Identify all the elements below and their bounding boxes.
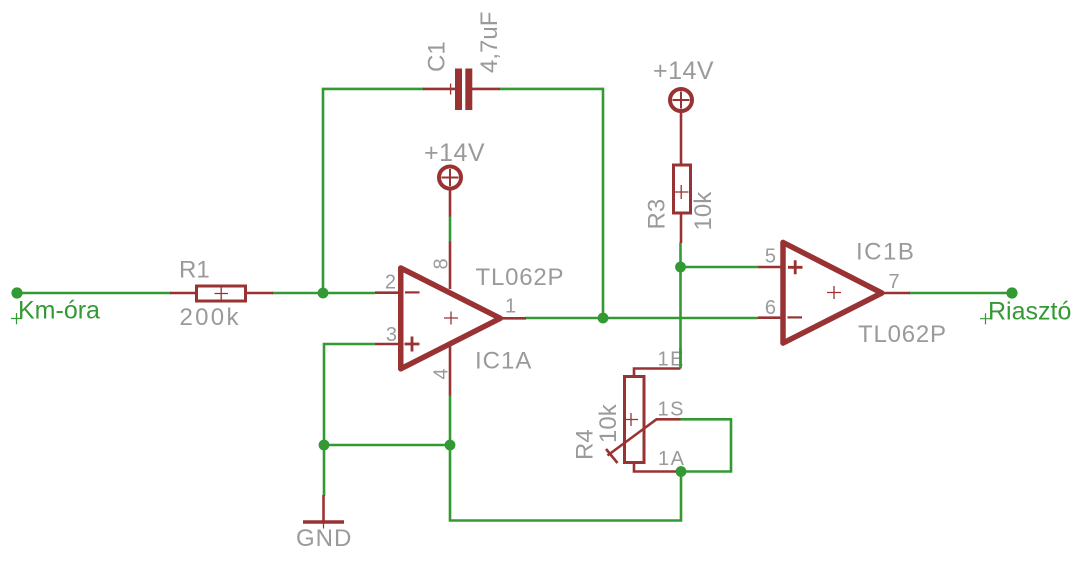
node Km-ora origin cross bbox=[11, 313, 22, 324]
wire net to GND bbox=[323, 445, 326, 496]
wire net R3 to IC1B pin5 bbox=[681, 266, 759, 269]
junction at GND branch bbox=[319, 440, 330, 451]
wire net IC1B output to RIASZTO terminal bbox=[909, 292, 1012, 295]
svg-text:R3: R3 bbox=[644, 199, 671, 230]
wire net GND row horizontal bbox=[324, 444, 450, 447]
junction at R4 pad 1A bbox=[676, 466, 687, 477]
svg-text:1: 1 bbox=[505, 296, 516, 318]
terminal node Km-ora bbox=[11, 287, 22, 298]
resistor R3 bbox=[674, 165, 691, 243]
svg-text:2: 2 bbox=[385, 272, 396, 294]
junction at IC1A pin4 / bottom run bbox=[445, 440, 456, 451]
resistor R1 bbox=[170, 286, 273, 301]
wire net R4 wiper 1S loop to 1A bbox=[681, 419, 732, 471]
wire net +14V supply to IC1A pin8 bbox=[449, 216, 452, 242]
svg-text:TL062P: TL062P bbox=[476, 264, 565, 291]
svg-text:+14V: +14V bbox=[424, 139, 485, 167]
svg-text:5: 5 bbox=[765, 246, 776, 268]
junction at IC1A output bbox=[598, 313, 609, 324]
wire net down to R4 pad 1E bbox=[679, 267, 682, 369]
op-amp IC1A bbox=[375, 242, 526, 396]
svg-text:10k: 10k bbox=[595, 403, 622, 443]
svg-text:8: 8 bbox=[431, 258, 453, 269]
wire net IC1A output to IC1B pin6 bbox=[525, 317, 758, 320]
svg-text:6: 6 bbox=[765, 297, 776, 319]
svg-text:200k: 200k bbox=[180, 304, 241, 331]
terminal node Riaszto bbox=[1006, 287, 1017, 298]
svg-text:10k: 10k bbox=[690, 191, 717, 231]
svg-text:1S: 1S bbox=[658, 399, 685, 421]
svg-text:1A: 1A bbox=[658, 448, 685, 470]
svg-text:IC1A: IC1A bbox=[475, 348, 532, 375]
svg-text:7: 7 bbox=[889, 271, 900, 293]
svg-text:4,7uF: 4,7uF bbox=[476, 12, 503, 73]
ground symbol GND bbox=[303, 495, 344, 529]
svg-text:3: 3 bbox=[386, 324, 397, 346]
svg-text:IC1B: IC1B bbox=[856, 239, 915, 266]
wire net C1 right to IC1A output (down right side) bbox=[499, 89, 603, 318]
svg-text:C1: C1 bbox=[424, 41, 451, 72]
svg-text:GND: GND bbox=[296, 525, 352, 552]
svg-text:Km-óra: Km-óra bbox=[18, 297, 100, 325]
capacitor C1 bbox=[423, 69, 500, 111]
wire net C1 left branch (up from R1 node, across to C1) bbox=[323, 89, 424, 293]
svg-text:4: 4 bbox=[431, 368, 453, 379]
potentiometer R4 bbox=[606, 369, 681, 472]
wire net R3 bottom bbox=[679, 243, 682, 269]
node Riaszto origin cross bbox=[980, 313, 991, 324]
supply symbol +14V (above IC1A) bbox=[439, 167, 461, 217]
svg-text:Riasztó: Riasztó bbox=[988, 298, 1071, 326]
wire net KM-ORA from terminal to R1 bbox=[17, 292, 171, 295]
svg-text:TL062P: TL062P bbox=[858, 321, 947, 348]
wire net IC1A pin4 bbox=[449, 395, 452, 445]
svg-text:+14V: +14V bbox=[653, 57, 714, 85]
wire net bottom run to R4 pad 1A bbox=[450, 445, 681, 521]
wire net 1E overlay (over label) bbox=[679, 348, 682, 368]
op-amp IC1B bbox=[758, 242, 910, 343]
junction below R3 bbox=[675, 262, 686, 273]
wire net R1 right to IC1A pin2 bbox=[272, 292, 375, 295]
junction at R1 / C1 branch bbox=[318, 288, 329, 299]
svg-text:R1: R1 bbox=[179, 257, 210, 284]
wire net IC1A pin3 branch bbox=[324, 344, 375, 445]
supply symbol +14V (above R3) bbox=[670, 89, 692, 164]
